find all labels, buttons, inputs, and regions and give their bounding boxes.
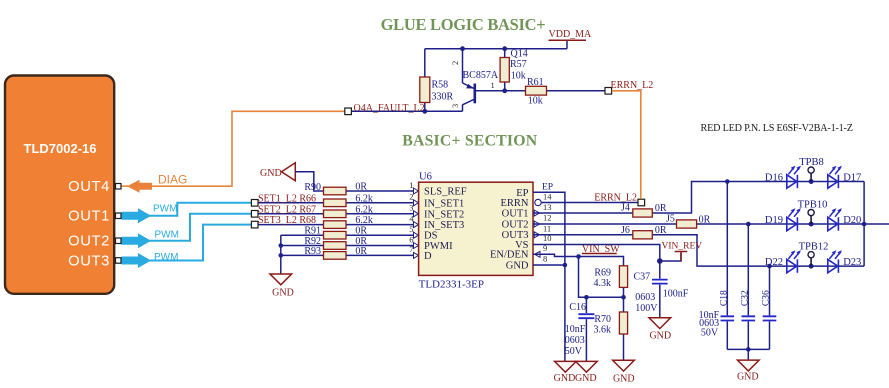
svg-text:C32: C32 [741, 290, 751, 306]
svg-text:R61: R61 [527, 77, 544, 88]
svg-text:O4A_FAULT_L2: O4A_FAULT_L2 [354, 103, 425, 114]
svg-text:GND: GND [575, 373, 597, 384]
svg-text:SET3_L2 R68: SET3_L2 R68 [258, 215, 316, 226]
svg-text:6.2k: 6.2k [355, 193, 373, 204]
svg-text:SET1_L2 R66: SET1_L2 R66 [258, 193, 316, 204]
svg-text:PWM: PWM [153, 204, 177, 215]
svg-text:0R: 0R [355, 182, 367, 193]
svg-text:OUT4: OUT4 [68, 179, 110, 195]
svg-text:50V: 50V [565, 346, 583, 357]
svg-text:D23: D23 [843, 257, 861, 268]
svg-text:10nF: 10nF [565, 324, 586, 335]
svg-text:R70: R70 [594, 314, 611, 325]
svg-text:C36: C36 [762, 290, 772, 306]
svg-text:D19: D19 [765, 215, 783, 226]
svg-text:VIN_SW: VIN_SW [582, 244, 620, 255]
svg-text:0R: 0R [655, 225, 667, 236]
svg-text:OUT3: OUT3 [68, 254, 110, 270]
svg-text:330R: 330R [432, 92, 454, 103]
svg-text:EN/DEN: EN/DEN [490, 250, 529, 261]
svg-text:J5: J5 [666, 214, 675, 225]
svg-text:5: 5 [409, 224, 413, 234]
svg-text:12: 12 [543, 213, 552, 223]
svg-text:2: 2 [409, 192, 413, 202]
svg-text:11: 11 [543, 223, 551, 233]
svg-text:D17: D17 [843, 173, 861, 184]
svg-text:VIN_REV: VIN_REV [662, 242, 703, 252]
svg-text:SLS_REF: SLS_REF [424, 187, 467, 198]
svg-text:R57: R57 [510, 59, 527, 70]
svg-text:J6: J6 [621, 225, 630, 236]
svg-text:TPB12: TPB12 [799, 242, 829, 253]
svg-text:PWM: PWM [155, 229, 179, 240]
svg-text:C18: C18 [720, 290, 730, 306]
svg-text:R93: R93 [304, 246, 321, 257]
svg-text:IN_SET3: IN_SET3 [424, 220, 464, 231]
svg-text:100V: 100V [635, 303, 658, 314]
svg-text:GND: GND [737, 372, 759, 383]
svg-text:8: 8 [543, 254, 547, 264]
svg-text:0603: 0603 [565, 335, 585, 346]
svg-text:OUT1: OUT1 [68, 209, 110, 225]
svg-text:D22: D22 [765, 257, 783, 268]
svg-text:D: D [424, 251, 432, 262]
svg-text:RED LED P.N. LS E6SF-V2BA-1-1: RED LED P.N. LS E6SF-V2BA-1-1-Z [701, 123, 853, 134]
svg-text:R69: R69 [594, 268, 611, 279]
svg-text:OUT1: OUT1 [502, 209, 529, 220]
svg-text:J4: J4 [621, 203, 630, 214]
svg-text:3.6k: 3.6k [594, 325, 612, 336]
svg-text:DIAG: DIAG [158, 173, 187, 187]
svg-text:ERRN_L2: ERRN_L2 [611, 80, 654, 91]
svg-text:R90: R90 [304, 182, 321, 193]
svg-text:4.3k: 4.3k [594, 278, 612, 289]
svg-text:GND: GND [506, 260, 529, 271]
svg-text:7: 7 [409, 244, 413, 254]
svg-text:GND: GND [649, 331, 671, 342]
svg-text:D16: D16 [765, 173, 783, 184]
svg-text:D20: D20 [843, 215, 861, 226]
svg-text:IN_SET2: IN_SET2 [424, 209, 464, 220]
svg-text:TPB8: TPB8 [799, 157, 824, 168]
svg-text:100nF: 100nF [663, 288, 689, 299]
svg-text:GLUE LOGIC BASIC+: GLUE LOGIC BASIC+ [381, 15, 546, 34]
svg-text:13: 13 [543, 202, 552, 212]
svg-text:OUT2: OUT2 [502, 219, 529, 230]
svg-text:0R: 0R [655, 203, 667, 214]
svg-text:C37: C37 [634, 271, 651, 282]
svg-text:6: 6 [409, 234, 413, 244]
svg-text:GND: GND [613, 373, 635, 384]
svg-text:C16: C16 [569, 302, 586, 313]
svg-text:0R: 0R [699, 215, 711, 226]
svg-text:ERRN_L2: ERRN_L2 [594, 193, 637, 204]
svg-text:10k: 10k [511, 70, 526, 81]
svg-text:IN_SET1: IN_SET1 [424, 198, 464, 209]
svg-text:1: 1 [491, 80, 495, 90]
svg-text:0R: 0R [355, 246, 367, 257]
svg-text:U6: U6 [419, 172, 432, 183]
svg-text:GND: GND [554, 373, 576, 384]
svg-text:OUT2: OUT2 [68, 234, 110, 250]
svg-text:BASIC+ SECTION: BASIC+ SECTION [402, 133, 538, 150]
svg-text:GND: GND [260, 168, 282, 179]
svg-text:10k: 10k [528, 95, 543, 106]
svg-text:3: 3 [409, 203, 413, 213]
svg-text:TPB10: TPB10 [798, 200, 828, 211]
svg-text:1: 1 [409, 180, 413, 190]
svg-text:EP: EP [542, 183, 553, 193]
svg-text:3: 3 [450, 104, 460, 108]
svg-text:TLD7002-16: TLD7002-16 [24, 141, 97, 156]
svg-text:TLD2331-3EP: TLD2331-3EP [419, 279, 484, 291]
svg-text:50V: 50V [701, 328, 719, 339]
svg-text:SET2_L2 R67: SET2_L2 R67 [258, 204, 316, 215]
svg-text:GND: GND [272, 288, 294, 299]
svg-text:2: 2 [450, 61, 460, 65]
svg-text:PWM: PWM [154, 252, 178, 263]
svg-text:6.2k: 6.2k [355, 204, 373, 215]
svg-text:VDD_MA: VDD_MA [549, 29, 593, 40]
svg-text:Q14: Q14 [511, 49, 528, 60]
svg-text:6.2k: 6.2k [355, 215, 373, 226]
svg-text:0603: 0603 [635, 292, 655, 303]
svg-text:R58: R58 [432, 80, 449, 91]
svg-text:ERRN: ERRN [500, 198, 528, 209]
